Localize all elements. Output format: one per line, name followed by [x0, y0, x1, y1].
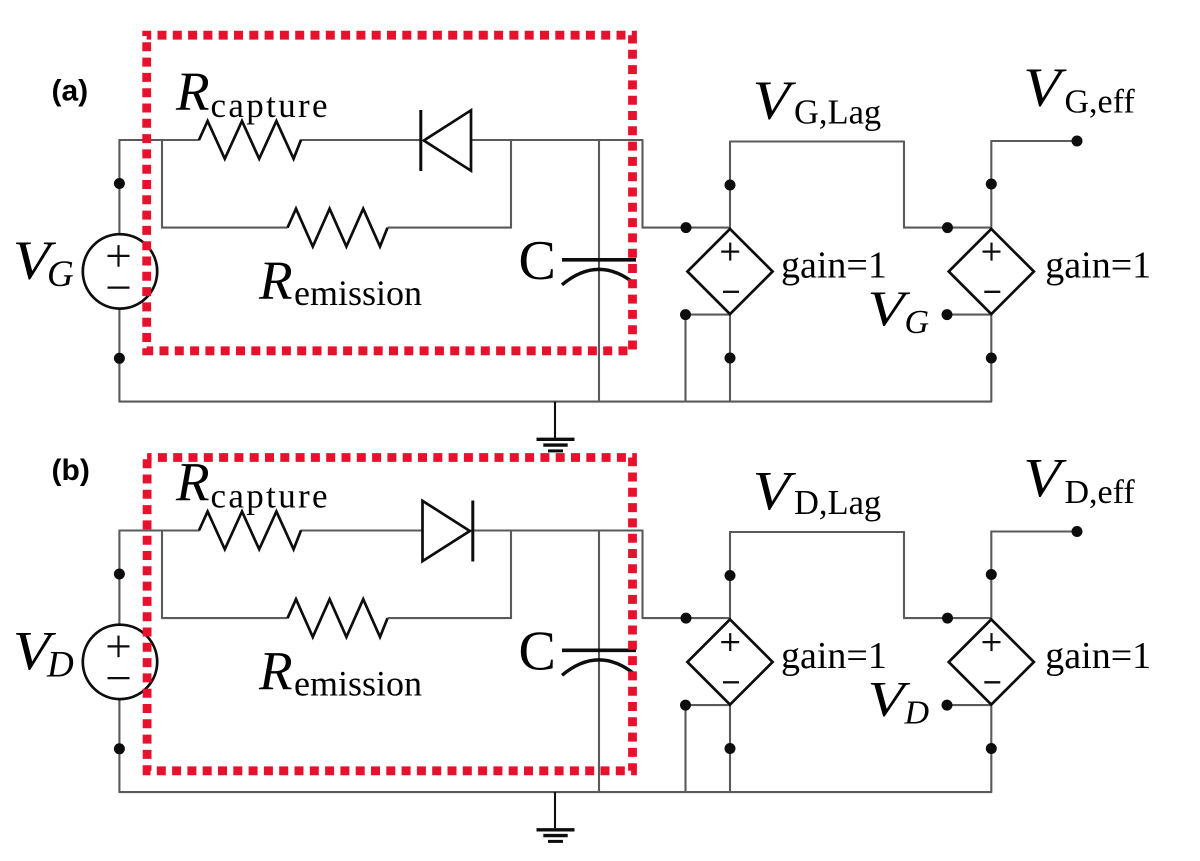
svg-text:emission: emission	[294, 664, 422, 704]
node dot: source V1 plus terminal	[114, 178, 125, 189]
node dot: below U3	[725, 743, 736, 754]
wire: step-down vertical at x=904	[903, 531, 905, 618]
svg-text:V: V	[753, 70, 797, 131]
svg-text:D: D	[46, 645, 74, 686]
ground symbol	[537, 402, 575, 451]
label R_emission	[258, 250, 422, 313]
wire: U3 bottom node stub to the left	[686, 704, 731, 706]
wire: diode D2 to top-right corner	[471, 529, 643, 531]
node dot: U1 bottom-left	[680, 309, 691, 320]
wire: bottom ground rail	[119, 791, 993, 793]
wire: into dependent source U1 top node	[642, 227, 730, 229]
svg-text:capture: capture	[211, 86, 330, 125]
wire: capacitor C2 stem from top rail to bottom rail	[598, 530, 600, 793]
wire: step-down vertical at x=642	[641, 530, 643, 619]
node dot: below U2	[986, 353, 997, 364]
wire: capacitor C1 stem from top rail to bottom rail	[598, 139, 600, 402]
node dot: source V2 minus terminal	[114, 743, 125, 754]
wire: vertical from U3 bottom vertex to bottom rail	[729, 705, 731, 793]
wire: vertical above dependent source U1	[729, 142, 731, 230]
node dot: U3 bottom-left	[680, 700, 691, 711]
capacitor C2: curved bottom plate	[562, 660, 636, 675]
node dot: below U1	[725, 353, 736, 364]
label R_capture	[175, 61, 330, 125]
svg-text:capture: capture	[211, 477, 330, 516]
wire: top rail from source to R_capture	[119, 529, 200, 531]
diode D1 pointing left: triangle	[424, 110, 471, 170]
wire: vertical from U1 bottom vertex to bottom rail	[729, 314, 731, 402]
capacitor C2: straight top plate	[562, 648, 636, 652]
wire: top rail from source to R_capture	[119, 139, 200, 141]
node dot: source V1 minus terminal	[114, 353, 125, 364]
wire: left branch vertical joining R_capture and R_emission branches	[161, 530, 163, 619]
label R_capture	[175, 452, 330, 516]
svg-text:R: R	[258, 250, 293, 311]
wire: right branch vertical joining diode branch to R_emission branch	[510, 530, 512, 619]
svg-text:C: C	[519, 230, 556, 292]
wire: right branch vertical joining diode branch to R_emission branch	[510, 139, 512, 228]
svg-text:V: V	[753, 460, 797, 521]
wire: vertical from U4 bottom vertex to bottom rail	[990, 705, 992, 793]
dependent source U2 (diamond with plus/minus)	[949, 229, 1034, 314]
svg-text:(b): (b)	[52, 454, 90, 487]
node dot: below U4	[986, 743, 997, 754]
wire: vertical from U2 bottom vertex to bottom rail	[990, 314, 992, 402]
wire: R_emission branch left lead	[161, 617, 287, 619]
node dot: above U1	[725, 180, 736, 191]
svg-text:R: R	[175, 61, 210, 122]
capacitor C1: straight top plate	[562, 258, 636, 262]
label V_D,eff	[1023, 447, 1135, 511]
wire: source V1 minus lead down to bottom rail	[118, 309, 120, 402]
svg-text:D,eff: D,eff	[1065, 474, 1136, 511]
node dot: above U4	[986, 569, 997, 580]
wire: V_D,Lag top rail	[729, 531, 904, 533]
wire: V_D control terminal stub at U4 bottom	[947, 704, 991, 706]
svg-text:R: R	[258, 641, 293, 702]
diode D1 pointing left: cathode bar	[419, 110, 422, 171]
label V_G (control input of U2)	[868, 280, 930, 341]
wire: into dependent source U4 top node	[903, 617, 991, 619]
capacitor C1: curved bottom plate	[562, 269, 636, 284]
wire: top-left corner vertical, source V1 plus lead	[118, 140, 120, 234]
resistor R2 (R_emission)	[288, 209, 388, 247]
wire: into dependent source U2 top node	[903, 227, 991, 229]
dependent source U4 (diamond with plus/minus)	[949, 619, 1034, 704]
wire: top-left corner vertical, source V2 plus lead	[118, 531, 120, 625]
wire: vertical from U1 bottom-left dot to bottom rail	[684, 314, 686, 402]
wire: vertical above dependent source U3	[729, 532, 731, 620]
label V_D,Lag	[753, 460, 881, 522]
red dotted box around trap RC network (b)	[147, 458, 632, 771]
resistor R1 (R_capture)	[199, 121, 301, 159]
svg-text:G: G	[47, 254, 74, 295]
node dot: source V2 plus terminal	[114, 569, 125, 580]
wire: R_emission branch right lead	[388, 617, 512, 619]
wire: U1 bottom node stub to the left	[686, 314, 731, 316]
label V_G,eff	[1023, 57, 1135, 121]
wire: diode D1 to top-right corner	[471, 139, 643, 141]
wire: source V2 minus lead down to bottom rail	[118, 699, 120, 792]
diode D2 pointing right: triangle	[423, 501, 470, 561]
red dotted box around trap RC network (a)	[147, 35, 633, 351]
wire: V_G,Lag top rail	[729, 140, 904, 142]
label V_G,Lag	[753, 70, 881, 132]
svg-text:gain=1: gain=1	[1045, 245, 1151, 287]
label V_D (control input of U4)	[868, 671, 930, 732]
wire: V_G control terminal stub at U2 bottom	[947, 314, 991, 316]
wire: V_G,eff output stub	[990, 140, 1077, 142]
svg-text:D,Lag: D,Lag	[794, 484, 881, 522]
wire: bottom ground rail	[119, 401, 993, 403]
node dot: above U2	[986, 179, 997, 190]
label V_G (source)	[13, 230, 74, 296]
node dot: V_G,eff output terminal	[1072, 136, 1083, 147]
diode D2 pointing right: cathode bar	[471, 501, 474, 562]
resistor R4 (R_emission)	[288, 599, 388, 637]
label R_emission	[258, 641, 422, 704]
node dot: before U4 top node	[942, 613, 953, 624]
wire: step-down vertical at x=642	[641, 139, 643, 228]
svg-text:G,Lag: G,Lag	[794, 93, 881, 131]
svg-text:V: V	[1023, 57, 1067, 118]
svg-text:emission: emission	[294, 273, 422, 313]
voltage source V2 (circle with plus/minus)	[83, 625, 157, 699]
svg-text:V: V	[1023, 447, 1067, 508]
dependent source U1 (diamond with plus/minus)	[687, 229, 772, 314]
wire: R_capture to diode D1	[301, 139, 423, 141]
svg-text:C: C	[519, 621, 556, 683]
node dot: V_D control terminal	[942, 700, 953, 711]
voltage source V1 (circle with plus/minus)	[83, 234, 157, 308]
node dot: above U3	[725, 570, 736, 581]
wire: vertical above dependent source U4	[990, 532, 992, 620]
node dot: V_G control terminal	[942, 309, 953, 320]
ground symbol	[537, 792, 575, 841]
wire: R_emission branch left lead	[161, 227, 287, 229]
wire: into dependent source U3 top node	[642, 617, 730, 619]
wire: V_D,eff output stub	[990, 530, 1077, 532]
resistor R3 (R_capture)	[199, 512, 301, 550]
node dot: V_D,eff output terminal	[1072, 526, 1083, 537]
wire: R_capture to diode D2	[301, 529, 423, 531]
svg-text:G,eff: G,eff	[1065, 84, 1136, 121]
wire: left branch vertical joining R_capture and R_emission branches	[161, 139, 163, 228]
wire: R_emission branch right lead	[388, 227, 512, 229]
svg-text:G: G	[905, 304, 930, 341]
wire: vertical above dependent source U2	[990, 141, 992, 229]
node dot: before U1 top node	[681, 222, 692, 233]
node dot: before U3 top node	[681, 613, 692, 624]
svg-text:gain=1: gain=1	[1045, 635, 1151, 677]
node dot: before U2 top node	[942, 222, 953, 233]
wire: vertical from U3 bottom-left dot to bottom rail	[684, 704, 686, 792]
wire: step-down vertical at x=904	[903, 141, 905, 228]
dependent source U3 (diamond with plus/minus)	[687, 619, 772, 704]
label V_D (source)	[13, 620, 74, 686]
svg-text:(a): (a)	[52, 75, 89, 108]
svg-text:D: D	[904, 695, 930, 732]
